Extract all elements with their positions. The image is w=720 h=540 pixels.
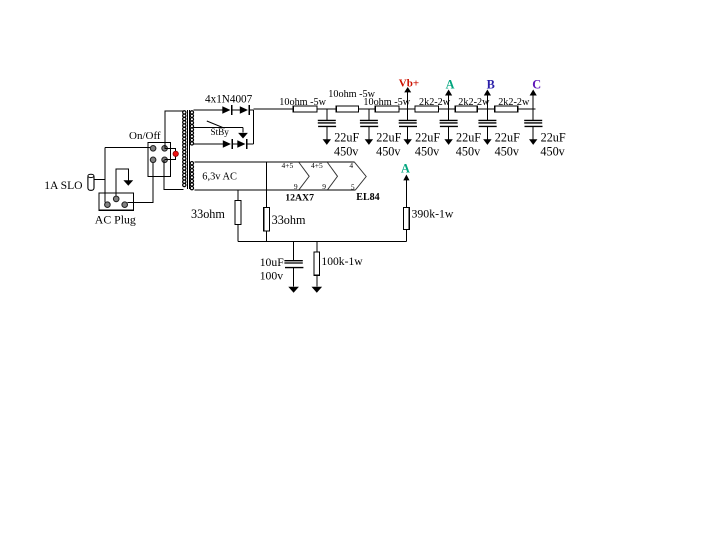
wire rail segment 4 [399, 108, 415, 110]
switch S1 On/Off [148, 142, 171, 176]
diode D4 [237, 140, 245, 147]
svg-text:2k2-2w: 2k2-2w [498, 97, 530, 108]
wire rail segment 7 [518, 108, 536, 110]
svg-text:A: A [401, 162, 410, 176]
resistor R8 33ohm [264, 208, 270, 231]
svg-text:B: B [487, 78, 495, 92]
wire heater top to R8 [266, 162, 268, 207]
tube heater chevron V3 EL84 [354, 162, 366, 190]
diode D3 [223, 140, 231, 147]
svg-text:9: 9 [294, 182, 298, 191]
svg-text:9: 9 [322, 182, 326, 191]
transformer T1 HV secondary winding [190, 111, 193, 145]
wire vertical to switch [104, 148, 106, 203]
ground arrow StBy [238, 133, 248, 139]
node B arrow [484, 90, 491, 96]
node A arrow [445, 90, 452, 96]
capacitor C4 22uF 450v [440, 109, 458, 145]
wire D4 to node [247, 143, 254, 145]
capacitor C6 22uF 450v [524, 109, 542, 145]
plug pin left [105, 202, 111, 208]
node Vb+ wire [407, 92, 409, 109]
svg-text:4+5: 4+5 [311, 161, 323, 170]
svg-text:22uF: 22uF [541, 130, 566, 144]
svg-text:390k-1w: 390k-1w [412, 206, 454, 220]
switch pin TR [162, 146, 168, 152]
resistor R7 33ohm [235, 201, 241, 225]
wire D1-D2 [232, 109, 240, 111]
resistor R4 2k2 2w [415, 106, 438, 112]
resistor R1 10ohm 5w [293, 106, 317, 112]
wire fuse to mains vertical [94, 178, 105, 180]
capacitor C3 22uF 450v [399, 109, 417, 145]
diode D2 [240, 106, 248, 113]
transformer T1 core [188, 110, 190, 189]
wire D2 to node [249, 109, 254, 111]
node C wire [532, 95, 534, 110]
svg-text:450v: 450v [540, 144, 565, 158]
svg-text:10uF: 10uF [260, 256, 285, 269]
node Vb+ arrow [404, 87, 411, 92]
svg-text:33ohm: 33ohm [272, 213, 306, 227]
wire to On/Off top-left pin [105, 147, 153, 149]
svg-text:22uF: 22uF [376, 130, 401, 144]
wire lamp bracket [165, 148, 176, 159]
diode D1 [222, 106, 230, 113]
label 22uF 450v #6 [540, 130, 565, 158]
resistor R2 10ohm 5w [336, 106, 358, 112]
svg-text:2k2-2w: 2k2-2w [419, 97, 451, 108]
svg-text:450v: 450v [495, 144, 520, 158]
switch S2 StBy lever [207, 121, 225, 128]
tube heater chevron V1 12AX7 [299, 162, 310, 190]
transformer T1 6.3v secondary winding [190, 162, 193, 190]
wire rectifier output node [253, 110, 255, 144]
wire earth pin to chassis [116, 169, 128, 196]
svg-text:450v: 450v [415, 144, 440, 158]
plug pin earth [113, 196, 119, 202]
wire rail segment 3 [358, 108, 375, 110]
fuse F1 1A SLO [88, 174, 94, 190]
svg-text:10ohm -5w: 10ohm -5w [363, 97, 410, 108]
wire plug right pin to switch [128, 160, 154, 203]
svg-text:33ohm: 33ohm [191, 207, 225, 221]
wire HV top tap [194, 109, 223, 111]
resistor R5 2k2 2w [455, 106, 477, 112]
svg-text:22uF: 22uF [334, 130, 359, 144]
svg-text:On/Off: On/Off [129, 130, 161, 142]
svg-text:Vb+: Vb+ [399, 77, 419, 89]
svg-text:22uF: 22uF [456, 130, 481, 144]
neon lamp NE1 [173, 151, 178, 156]
wire D3-D4 [232, 143, 237, 145]
label 22uF 450v #5 [495, 130, 520, 158]
node B wire [486, 95, 488, 110]
svg-text:EL84: EL84 [356, 192, 379, 203]
svg-text:10ohm -5w: 10ohm -5w [279, 97, 326, 108]
transformer T1 primary winding [183, 111, 186, 187]
ground chassis arrow [123, 180, 133, 185]
wire heater bottom rail 6.3v [195, 189, 356, 191]
plug pin right [122, 202, 128, 208]
wire R8 to bus [266, 231, 268, 242]
wire rail segment 5 [438, 108, 455, 110]
svg-text:22uF: 22uF [495, 130, 520, 144]
node C arrow [530, 90, 537, 96]
svg-text:12AX7: 12AX7 [285, 192, 314, 203]
svg-text:450v: 450v [334, 144, 359, 158]
svg-text:A: A [446, 78, 455, 92]
resistor R6 2k2 2w [495, 106, 518, 112]
svg-text:4+5: 4+5 [282, 161, 294, 170]
wire rail segment 6 [477, 108, 495, 110]
label 22uF 450v #2 [376, 130, 401, 158]
tube heater chevron V2 12AX7 [327, 162, 337, 190]
capacitor C1 22uF 450v [318, 109, 336, 145]
svg-text:450v: 450v [456, 144, 481, 158]
svg-text:2k2-2w: 2k2-2w [458, 97, 490, 108]
wire ground bus [238, 240, 407, 242]
resistor R3 10ohm 5w [375, 106, 399, 112]
svg-text:100v: 100v [260, 270, 284, 283]
svg-text:1A SLO: 1A SLO [44, 179, 82, 192]
wire rail segment 2 [317, 108, 336, 110]
resistor R10 390k-1w [403, 175, 409, 242]
svg-text:5: 5 [351, 182, 355, 191]
capacitor C7 10uF 100v [284, 241, 303, 292]
switch pin BL [150, 157, 156, 163]
wire switch TR to primary top [165, 111, 183, 149]
label 22uF 450v #4 [456, 130, 481, 158]
wire R7 to bus [237, 224, 239, 241]
svg-text:4x1N4007: 4x1N4007 [205, 94, 253, 106]
svg-text:StBy: StBy [211, 127, 230, 137]
wire HV bottom tap [194, 143, 223, 145]
wire switch BR to primary bottom [164, 160, 183, 190]
label 22uF 450v #1 [334, 130, 359, 158]
switch pin BR [162, 157, 168, 163]
svg-text:4: 4 [349, 161, 353, 170]
resistor R9 100k-1w [312, 241, 323, 292]
svg-text:C: C [532, 78, 541, 92]
wire heater top rail 6.3v [195, 161, 355, 163]
node A wire [448, 95, 450, 110]
capacitor C2 22uF 450v [360, 109, 378, 145]
capacitor C5 22uF 450v [478, 109, 496, 145]
svg-text:6,3v AC: 6,3v AC [202, 171, 237, 182]
svg-text:450v: 450v [376, 144, 401, 158]
wire heater bottom to R7 [237, 190, 239, 201]
AC plug P1 [99, 193, 134, 210]
svg-text:100k-1w: 100k-1w [321, 255, 363, 268]
switch pin TL [150, 146, 156, 152]
svg-text:22uF: 22uF [415, 130, 440, 144]
wire HV center tap [194, 127, 244, 129]
svg-text:AC Plug: AC Plug [95, 213, 136, 227]
wire StBy to ground [242, 128, 244, 133]
wire B+ rail [254, 108, 294, 110]
label 22uF 450v #3 [415, 130, 440, 158]
